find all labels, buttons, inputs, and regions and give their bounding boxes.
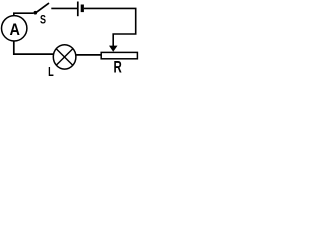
battery long plate [77,2,79,17]
resistor R box [101,52,137,58]
battery short plate [81,5,84,13]
ammeter A [2,16,27,41]
wire battery to right corner, down, step left [84,8,136,46]
svg-text:A: A [10,21,20,39]
switch S blade [36,3,49,13]
lamp cross line 1 [56,49,73,66]
lamp cross line 2 [56,49,73,66]
svg-text:S: S [40,12,46,26]
svg-text:L: L [48,65,54,76]
rheostat arrow head [109,46,118,52]
svg-text:R: R [114,59,123,76]
wire switch to battery [51,7,77,9]
switch S pivot dot [34,11,38,15]
wire ammeter top to switch [14,13,34,16]
lamp L circle [53,45,76,69]
wire ammeter bottom to lamp [14,41,54,54]
wire lamp to resistor [76,54,101,56]
